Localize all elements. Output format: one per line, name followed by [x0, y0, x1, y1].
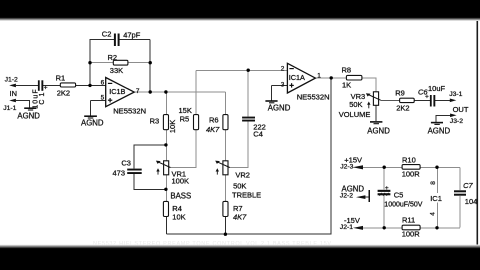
- connector J2-2 AGND: [340, 185, 370, 202]
- svg-text:J2-1: J2-1: [340, 224, 353, 231]
- right border line: [477, 19, 479, 246]
- svg-text:4: 4: [429, 212, 436, 216]
- svg-text:6: 6: [101, 79, 105, 86]
- wire VR1 bottom to R4: [165, 175, 167, 202]
- wire IC1B pin5 ground drop: [90, 100, 92, 116]
- svg-text:4K7: 4K7: [233, 212, 247, 221]
- wire VR2 wiper to C4 bottom: [229, 122, 248, 168]
- svg-text:IC1B: IC1B: [109, 87, 125, 96]
- wire C7 branch top: [459, 167, 461, 190]
- wire R3 branch top: [165, 92, 167, 115]
- svg-text:33K: 33K: [110, 66, 123, 75]
- node power top rail junction IC1: [435, 166, 438, 169]
- wire R7 bottom to rail: [224, 216, 226, 234]
- node C4 branch junction: [247, 69, 250, 72]
- wire IC1A output to R8: [315, 77, 346, 79]
- ground AGND VR3: [367, 122, 390, 135]
- node power top rail junction C5: [383, 166, 386, 169]
- svg-text:AGND: AGND: [17, 111, 40, 120]
- connector J3-2: [450, 114, 463, 126]
- capacitor C6: [418, 84, 446, 107]
- resistor R11: [402, 216, 421, 239]
- potentiometer VR2: [215, 161, 250, 191]
- svg-text:1: 1: [317, 72, 321, 79]
- wire R5 branch top: [195, 70, 197, 115]
- svg-text:10uF: 10uF: [428, 84, 446, 93]
- svg-text:R11: R11: [402, 216, 415, 225]
- wire IC1A pin2 row: [196, 69, 287, 71]
- op-amp IC1A: [281, 63, 330, 101]
- svg-text:R6: R6: [209, 115, 219, 124]
- svg-text:R3: R3: [150, 117, 160, 126]
- svg-text:2: 2: [281, 66, 285, 73]
- svg-text:IC1: IC1: [430, 194, 442, 203]
- resistor R9: [395, 89, 414, 113]
- svg-text:100R: 100R: [402, 170, 421, 179]
- svg-text:NE5532N: NE5532N: [113, 107, 146, 116]
- connector J2-1 -15V: [340, 216, 363, 231]
- wire R6 bottom to VR2 top: [224, 129, 226, 160]
- resistor R8: [342, 66, 362, 90]
- svg-text:C4: C4: [253, 130, 263, 139]
- svg-text:AGND: AGND: [367, 126, 390, 135]
- wire IC1 power vertical pin4: [436, 203, 438, 228]
- wire IC1A pin3 ground drop: [271, 85, 273, 100]
- svg-text:1K: 1K: [342, 81, 351, 90]
- resistor R5: [179, 106, 199, 130]
- svg-text:C7: C7: [463, 181, 473, 190]
- capacitor C7: [454, 181, 477, 206]
- node feedback right junction: [149, 61, 152, 64]
- resistor R4: [163, 201, 185, 221]
- capacitor C4: [242, 117, 266, 139]
- svg-text:3: 3: [281, 81, 285, 88]
- svg-text:+: +: [385, 185, 389, 192]
- resistor R6: [206, 115, 228, 134]
- connector J3-1: [449, 91, 462, 102]
- wire power bottom rail: [363, 227, 460, 229]
- capacitor C2: [102, 29, 141, 46]
- wire IC1B pin5 stub: [91, 99, 106, 101]
- wire VR3 wiper to R9: [381, 99, 400, 101]
- node IC1A output junction: [330, 76, 333, 79]
- node power bottom rail junction C5: [383, 226, 386, 229]
- svg-text:IN: IN: [10, 89, 18, 98]
- svg-text:IC1A: IC1A: [289, 73, 305, 82]
- wire C6 to J3-1: [435, 99, 450, 101]
- svg-text:J1-2: J1-2: [5, 77, 18, 84]
- resistor R1: [56, 74, 76, 98]
- capacitor C1: [32, 80, 48, 109]
- letterbox top: [0, 0, 480, 18]
- svg-text:C2: C2: [102, 29, 112, 38]
- svg-text:47pF: 47pF: [123, 31, 141, 40]
- wire C2 row right: [120, 39, 151, 41]
- svg-text:7: 7: [136, 88, 140, 95]
- resistor R3: [150, 115, 178, 134]
- svg-text:R2: R2: [108, 53, 118, 62]
- wire C5 vertical top: [383, 167, 385, 189]
- svg-text:J2-2: J2-2: [340, 193, 353, 200]
- wire C1 to R1: [43, 84, 61, 86]
- letterbox bottom: [0, 245, 480, 249]
- svg-text:OUT: OUT: [453, 105, 469, 114]
- wire IC1 power vertical pin8: [436, 167, 438, 193]
- ground AGND output: [428, 123, 451, 136]
- node R3 branch junction: [164, 90, 167, 93]
- resistor R2: [108, 53, 128, 75]
- wire R9 to C6: [414, 99, 430, 101]
- svg-text:100K: 100K: [172, 176, 190, 185]
- svg-text:VOLUME: VOLUME: [339, 110, 371, 119]
- svg-text:100R: 100R: [402, 230, 421, 239]
- svg-text:2K2: 2K2: [396, 103, 409, 112]
- potentiometer VR1: [156, 161, 189, 186]
- wire R8 to VR3 top: [362, 78, 376, 92]
- svg-text:1000uF/50V: 1000uF/50V: [384, 202, 422, 209]
- svg-text:C6: C6: [418, 87, 428, 96]
- svg-text:C5: C5: [394, 191, 404, 200]
- wire C3 loop bottom: [134, 174, 167, 189]
- svg-text:J1-1: J1-1: [3, 105, 16, 112]
- svg-text:BASS: BASS: [170, 191, 191, 200]
- resistor R10: [402, 155, 421, 178]
- wire J3-2 to ground: [436, 115, 451, 122]
- ground AGND input J1-1: [3, 99, 40, 121]
- svg-text:R1: R1: [56, 74, 66, 83]
- wire feedback vertical at node A: [89, 40, 91, 86]
- wire bottom feedback rail: [166, 78, 331, 234]
- node feedback left junction: [88, 61, 91, 64]
- svg-text:R9: R9: [395, 89, 405, 98]
- wire VR2 bottom to R7: [224, 175, 226, 202]
- node VR1 top junction: [164, 143, 167, 146]
- svg-text:TREBLE: TREBLE: [232, 190, 261, 199]
- wire IC1B output row: [134, 91, 225, 93]
- svg-text:10K: 10K: [172, 212, 185, 221]
- svg-text:10K: 10K: [168, 120, 177, 133]
- svg-text:J2-3: J2-3: [340, 164, 353, 171]
- node power bottom rail junction IC1: [435, 226, 438, 229]
- IC1 power pins label: [429, 181, 442, 216]
- resistor R7: [223, 201, 247, 221]
- capacitor C3: [113, 159, 142, 178]
- svg-text:5: 5: [101, 94, 105, 101]
- svg-text:4K7: 4K7: [206, 125, 220, 134]
- wire C2 row left: [90, 39, 115, 41]
- svg-text:50K: 50K: [349, 100, 362, 109]
- potentiometer VR3: [349, 92, 381, 109]
- wire power top rail: [363, 166, 460, 168]
- wire R6 branch top: [224, 92, 226, 115]
- wire J1-1 to ground: [16, 101, 30, 108]
- svg-text:C3: C3: [121, 159, 131, 168]
- wire R1 to IC1B pin6: [75, 84, 106, 86]
- svg-text:NE5532N: NE5532N: [297, 92, 330, 101]
- wire C4 branch top: [247, 70, 249, 116]
- wire R3 bottom to VR1 top: [165, 129, 167, 160]
- svg-text:473: 473: [113, 169, 126, 178]
- svg-text:104: 104: [465, 197, 478, 206]
- wire IC1A pin3 stub: [272, 84, 288, 86]
- wire R2 row right: [128, 62, 151, 64]
- svg-text:R5: R5: [180, 114, 190, 123]
- wire right feedback vertical down to output: [149, 40, 151, 92]
- svg-text:AGND: AGND: [268, 103, 291, 112]
- svg-text:10uF: 10uF: [32, 89, 39, 109]
- connector J1-2: [5, 77, 18, 88]
- node IC1B output junction: [149, 90, 152, 93]
- svg-text:R10: R10: [402, 155, 416, 164]
- connector J2-3 +15V: [340, 156, 363, 171]
- svg-text:VR2: VR2: [235, 170, 250, 179]
- svg-text:J3-2: J3-2: [450, 118, 463, 125]
- svg-text:8: 8: [430, 181, 437, 185]
- op-amp IC1B: [101, 78, 147, 116]
- wire C7 branch bottom: [459, 196, 461, 228]
- wire R4 bottom to rail: [165, 216, 167, 234]
- svg-text:AGND: AGND: [81, 118, 104, 127]
- wire R2 row left: [90, 62, 114, 64]
- svg-text:AGND: AGND: [428, 126, 451, 135]
- wire R5 bottom to VR1 wiper: [170, 129, 196, 167]
- capacitor C5: [378, 185, 423, 209]
- node VR1 bottom junction: [164, 188, 167, 191]
- ground AGND IC1A pin3: [265, 101, 290, 112]
- svg-text:J3-1: J3-1: [449, 91, 462, 98]
- svg-text:R8: R8: [342, 66, 352, 75]
- wire VR3 bottom ground drop: [375, 105, 377, 121]
- wire C5 vertical bottom: [383, 195, 385, 228]
- node input junction: [88, 84, 91, 87]
- wire C3 loop top: [134, 145, 167, 169]
- wire input row J1-2 to C1: [16, 84, 39, 86]
- wire J2-2 stub: [365, 196, 369, 198]
- ground AGND IC1B pin5: [81, 116, 104, 127]
- svg-text:2K2: 2K2: [57, 88, 70, 97]
- node bottom rail junction: [224, 233, 227, 236]
- svg-text:+: +: [44, 85, 48, 92]
